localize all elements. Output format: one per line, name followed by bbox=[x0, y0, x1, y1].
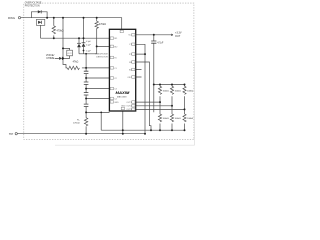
pin box bottom bbox=[121, 107, 124, 110]
junction dots top rail bbox=[46, 17, 48, 19]
svg-text:RING/VOICE: RING/VOICE bbox=[96, 54, 109, 56]
junction dots TIP rail bbox=[85, 133, 87, 135]
capacitor C3 bus bbox=[84, 93, 89, 95]
wire protection box bottom drop bbox=[40, 25, 42, 38]
svg-text:OSC: OSC bbox=[127, 77, 132, 79]
junction dot R2 tap bbox=[96, 45, 98, 47]
capacitor C4 bus bbox=[84, 104, 89, 106]
svg-text:4.7V: 4.7V bbox=[68, 53, 73, 55]
label VOICE/CHIME bbox=[46, 54, 55, 60]
resistor R5 pull-up 100k bbox=[158, 86, 161, 94]
wire voice branch vertical bbox=[63, 18, 67, 68]
svg-text:47kΩ: 47kΩ bbox=[73, 60, 79, 63]
svg-text:GND: GND bbox=[114, 102, 119, 104]
diode D3 charge pump upper bbox=[82, 43, 86, 47]
resistor R1 470k vertical bbox=[52, 26, 55, 34]
svg-text:0.1μF: 0.1μF bbox=[86, 45, 92, 47]
wire overvoltage bypass loop bbox=[31, 12, 47, 18]
svg-text:470kΩ: 470kΩ bbox=[57, 30, 64, 33]
resistor R10 lower 100k bbox=[183, 114, 186, 122]
junction dots rail 2 bbox=[53, 37, 55, 39]
svg-text:CHIME: CHIME bbox=[46, 57, 54, 60]
wire ground return under IC bbox=[101, 111, 184, 134]
resistor R9 lower 100k bbox=[170, 114, 173, 122]
wire R2 leads and tap to IC bbox=[97, 18, 110, 54]
junction dot 3.3V node bbox=[153, 34, 155, 36]
wire 47k resistor right lead to bus bbox=[82, 67, 86, 69]
labels charge pump caps bbox=[86, 41, 92, 52]
svg-text:470kΩ: 470kΩ bbox=[99, 23, 106, 26]
pin boxes left bbox=[110, 37, 113, 40]
label ring detect beside IC bbox=[96, 54, 109, 59]
terminal TIP bbox=[15, 133, 17, 135]
wire resistor column 3 bbox=[184, 85, 186, 131]
svg-text:100kΩ: 100kΩ bbox=[163, 118, 170, 120]
pin boxes right bbox=[132, 34, 135, 37]
wire output filter cap leads bbox=[153, 35, 155, 113]
protection box bbox=[36, 19, 44, 25]
svg-text:GND: GND bbox=[121, 106, 126, 108]
junction dots voice branch bbox=[62, 47, 64, 49]
junction dots bus bbox=[85, 53, 87, 55]
svg-text:100kΩ: 100kΩ bbox=[175, 91, 182, 93]
capacitor C1 bus bbox=[84, 71, 89, 73]
faint page frame bottom right bbox=[55, 62, 195, 145]
wire capacitor bus vertical bbox=[85, 54, 87, 134]
svg-text:100kΩ: 100kΩ bbox=[187, 91, 194, 93]
wire bus taps into IC left pins bbox=[86, 68, 109, 113]
wire right pins 2 and 3 to vertical x=145 bbox=[136, 44, 145, 133]
wire zener box stubs bbox=[63, 48, 70, 58]
capacitor C2 bus bbox=[84, 82, 89, 84]
junction dot charge pump bbox=[83, 50, 85, 52]
svg-text:100kΩ: 100kΩ bbox=[175, 118, 182, 120]
wire top rail from RING terminal to IC top pin bbox=[21, 18, 122, 30]
wire charge-pump vertical 2 bbox=[78, 38, 80, 54]
wire resistor column 2 bbox=[171, 85, 173, 131]
wire pull-up supply rail bbox=[154, 84, 185, 86]
svg-text:RING: RING bbox=[8, 16, 15, 20]
wire logic output lines bbox=[136, 102, 185, 109]
svg-text:R₁: R₁ bbox=[77, 120, 80, 122]
wire second rail to IC pin bbox=[41, 37, 110, 39]
resistor R8 lower 100k bbox=[158, 114, 161, 122]
dashed application-circuit border bbox=[24, 3, 194, 140]
diode D2 inside protection box bbox=[38, 21, 41, 24]
svg-text:0.1μF: 0.1μF bbox=[86, 50, 92, 52]
wire right pin 4 down to bottom rail bbox=[136, 62, 151, 130]
zener box component bbox=[67, 50, 73, 56]
wire resistor column 1 bbox=[159, 85, 161, 131]
label bus resistor bbox=[73, 120, 80, 125]
label OVERVOLTAGE PROTECTION bbox=[24, 0, 42, 7]
svg-text:OVERVOLTAGE: OVERVOLTAGE bbox=[25, 1, 42, 4]
resistor R7 pull-up 100k bbox=[183, 86, 186, 94]
svg-text:100kΩ: 100kΩ bbox=[163, 91, 170, 93]
svg-text:100kΩ: 100kΩ bbox=[187, 118, 194, 120]
wire TIP rail bbox=[17, 133, 145, 135]
arrow +3.3V output bbox=[169, 34, 174, 36]
resistor R6 pull-up 100k bbox=[170, 86, 173, 94]
terminal RING bbox=[18, 17, 20, 19]
resistor R4 bus 470k vertical bbox=[84, 118, 87, 126]
svg-text:0.1μF: 0.1μF bbox=[86, 41, 92, 43]
diode D5 voice input bbox=[59, 57, 62, 60]
resistor R3 47k horizontal bbox=[67, 66, 79, 69]
svg-text:DETECTOR: DETECTOR bbox=[96, 56, 108, 58]
svg-text:OUT2: OUT2 bbox=[126, 106, 132, 108]
pin box top bbox=[120, 30, 123, 33]
svg-text:OUT: OUT bbox=[175, 35, 181, 38]
svg-text:OUT3: OUT3 bbox=[126, 109, 132, 111]
svg-text:4.7μF: 4.7μF bbox=[157, 42, 164, 45]
labels 100k row 2 bbox=[163, 118, 194, 120]
diode D4 charge pump lower bbox=[77, 43, 81, 47]
junction dots bottom rail bbox=[122, 129, 124, 131]
svg-text:PROTECTION: PROTECTION bbox=[25, 6, 40, 8]
junction dot pin3 join bbox=[144, 53, 146, 55]
wire voice input to diode bbox=[55, 57, 63, 59]
resistor R2 470k vertical bbox=[95, 21, 98, 28]
wire charge-pump output line bbox=[79, 53, 97, 55]
labels 100k pull-ups row 1 bbox=[163, 91, 194, 93]
wire R1 leads bbox=[53, 18, 55, 39]
wire +3.3V output pin bbox=[136, 34, 169, 36]
junction dots pull-up rail bbox=[153, 84, 155, 86]
diode D1 in bypass loop bbox=[38, 10, 41, 13]
svg-text:OUT1: OUT1 bbox=[126, 102, 132, 104]
wire right pin stubs bbox=[136, 70, 142, 78]
svg-text:MAX1368: MAX1368 bbox=[117, 95, 127, 98]
wire charge-pump vertical 1 bbox=[83, 18, 85, 54]
junction dots output lines bbox=[159, 101, 161, 103]
svg-text:TIP: TIP bbox=[9, 132, 13, 136]
svg-text:470kΩ: 470kΩ bbox=[73, 123, 80, 125]
capacitor C5 4.7uF output bbox=[151, 41, 156, 43]
svg-text:MAXIM: MAXIM bbox=[116, 90, 131, 95]
svg-text:Vcc: Vcc bbox=[128, 35, 131, 37]
op-amp IC U1 body bbox=[109, 29, 135, 111]
